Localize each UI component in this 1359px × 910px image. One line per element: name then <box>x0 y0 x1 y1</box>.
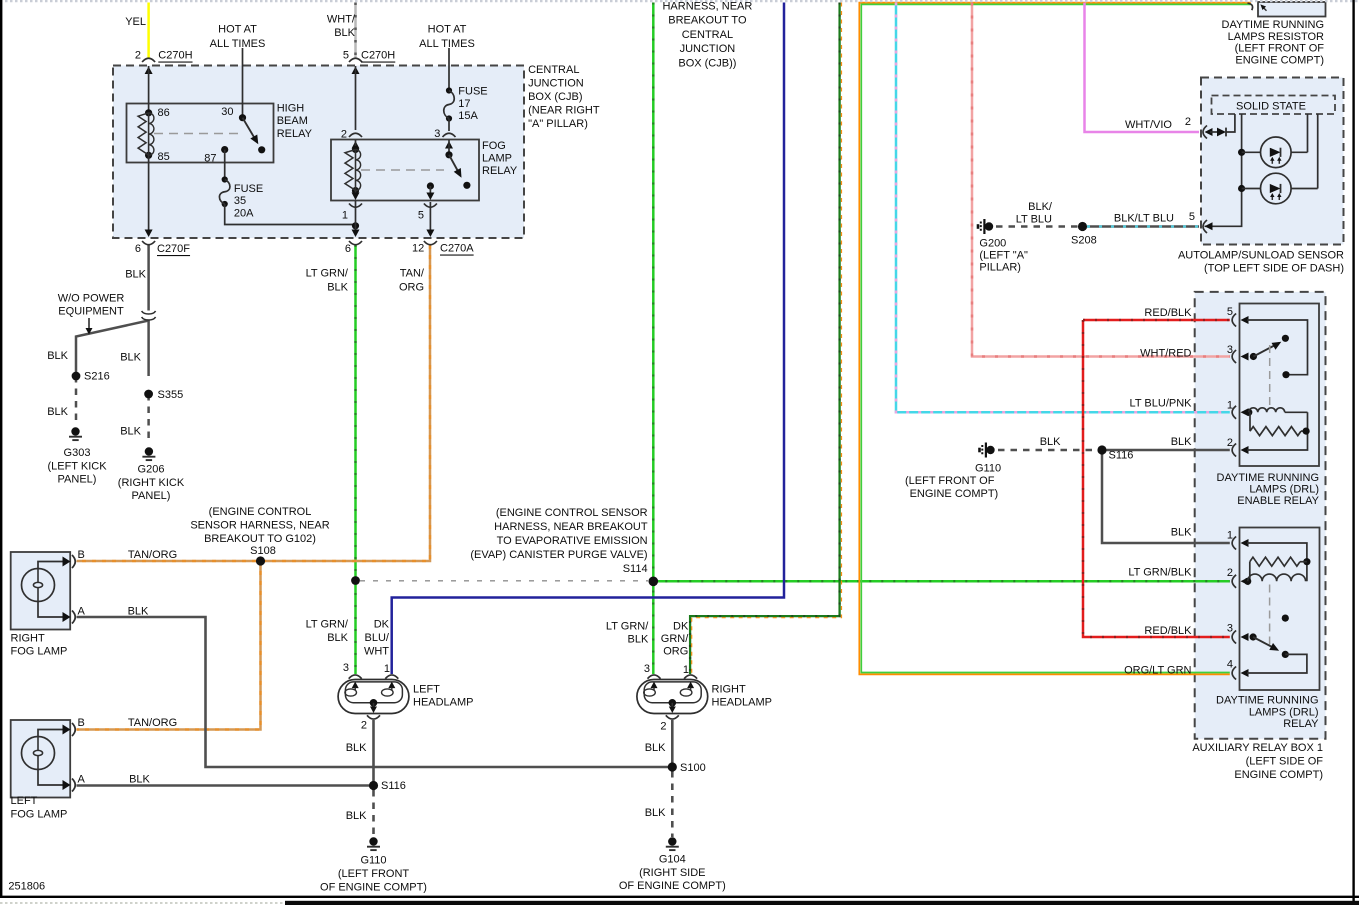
svg-text:RIGHT: RIGHT <box>712 684 747 696</box>
svg-text:S208: S208 <box>1071 235 1097 247</box>
svg-text:RELAY: RELAY <box>482 165 518 177</box>
svg-text:HARNESS, NEAR BREAKOUT: HARNESS, NEAR BREAKOUT <box>494 521 648 533</box>
svg-text:BEAM: BEAM <box>277 115 308 127</box>
svg-text:LAMPS (DRL): LAMPS (DRL) <box>1249 706 1319 718</box>
svg-text:(LEFT "A": (LEFT "A" <box>979 250 1028 262</box>
svg-text:(RIGHT KICK: (RIGHT KICK <box>118 477 185 489</box>
svg-text:ALL TIMES: ALL TIMES <box>210 38 266 50</box>
svg-text:G110: G110 <box>975 463 1001 475</box>
svg-text:1: 1 <box>342 210 348 222</box>
svg-text:5: 5 <box>418 209 424 221</box>
svg-text:JUNCTION: JUNCTION <box>680 43 736 55</box>
svg-text:G206: G206 <box>138 464 165 476</box>
svg-text:ENGINE COMPT): ENGINE COMPT) <box>1234 769 1323 781</box>
svg-text:251806: 251806 <box>8 881 45 893</box>
svg-text:RED/BLK: RED/BLK <box>1144 625 1192 637</box>
svg-text:15A: 15A <box>458 110 478 122</box>
svg-text:C270H: C270H <box>361 50 395 62</box>
svg-text:1: 1 <box>384 663 390 675</box>
svg-text:HIGH: HIGH <box>277 103 305 115</box>
svg-text:TAN/: TAN/ <box>400 268 425 280</box>
svg-text:JUNCTION: JUNCTION <box>528 77 584 89</box>
svg-text:S116: S116 <box>1109 450 1134 462</box>
svg-text:ENABLE RELAY: ENABLE RELAY <box>1237 495 1319 507</box>
svg-text:3: 3 <box>1227 622 1233 634</box>
svg-text:FOG: FOG <box>482 140 506 152</box>
svg-text:ALL TIMES: ALL TIMES <box>419 38 475 50</box>
svg-text:BLK: BLK <box>129 774 150 786</box>
svg-text:PANEL): PANEL) <box>132 490 171 502</box>
svg-text:(EVAP) CANISTER PURGE VALVE): (EVAP) CANISTER PURGE VALVE) <box>470 549 647 561</box>
svg-text:AUTOLAMP/SUNLOAD SENSOR: AUTOLAMP/SUNLOAD SENSOR <box>1178 250 1344 262</box>
svg-text:OF ENGINE COMPT): OF ENGINE COMPT) <box>320 881 427 893</box>
svg-text:G303: G303 <box>64 447 91 459</box>
svg-text:12: 12 <box>412 243 424 255</box>
svg-text:HOT AT: HOT AT <box>218 24 257 36</box>
svg-text:GRN/: GRN/ <box>661 633 689 645</box>
svg-text:CENTRAL: CENTRAL <box>528 64 579 76</box>
svg-text:5: 5 <box>1189 211 1195 223</box>
svg-text:SENSOR HARNESS, NEAR: SENSOR HARNESS, NEAR <box>190 519 329 531</box>
svg-text:RED/BLK: RED/BLK <box>1144 307 1192 319</box>
svg-text:3: 3 <box>343 662 349 674</box>
svg-text:BLK: BLK <box>645 742 666 754</box>
svg-text:2: 2 <box>1185 116 1191 128</box>
svg-text:20A: 20A <box>234 208 254 220</box>
svg-text:HARNESS, NEAR: HARNESS, NEAR <box>662 1 752 13</box>
svg-text:DK: DK <box>374 619 390 631</box>
svg-text:HEADLAMP: HEADLAMP <box>712 697 773 709</box>
svg-text:3: 3 <box>1227 344 1233 356</box>
svg-text:LT GRN/: LT GRN/ <box>606 621 649 633</box>
svg-text:5: 5 <box>1227 306 1233 318</box>
svg-text:LAMPS RESISTOR: LAMPS RESISTOR <box>1228 31 1324 43</box>
svg-text:DAYTIME RUNNING: DAYTIME RUNNING <box>1216 695 1318 707</box>
svg-text:LT GRN/: LT GRN/ <box>306 268 349 280</box>
svg-text:FOG LAMP: FOG LAMP <box>11 808 68 820</box>
svg-text:(LEFT SIDE OF: (LEFT SIDE OF <box>1246 756 1324 768</box>
svg-text:BLK: BLK <box>1171 527 1192 539</box>
svg-text:BLK: BLK <box>47 406 68 418</box>
svg-text:BOX (CJB): BOX (CJB) <box>528 91 582 103</box>
svg-text:S114: S114 <box>623 563 648 575</box>
svg-text:2: 2 <box>341 129 347 141</box>
svg-text:1: 1 <box>1227 400 1233 412</box>
svg-text:PANEL): PANEL) <box>58 474 97 486</box>
svg-text:DAYTIME RUNNING: DAYTIME RUNNING <box>1217 472 1319 484</box>
svg-text:BLK: BLK <box>1171 436 1192 448</box>
svg-text:WHT: WHT <box>364 646 389 658</box>
svg-text:S355: S355 <box>158 389 184 401</box>
svg-text:C270H: C270H <box>158 50 192 62</box>
svg-text:"A" PILLAR): "A" PILLAR) <box>528 118 588 130</box>
svg-text:BLK: BLK <box>1040 436 1061 448</box>
svg-text:FOG LAMP: FOG LAMP <box>11 646 68 658</box>
svg-text:HOT AT: HOT AT <box>428 24 467 36</box>
svg-text:B: B <box>78 549 85 561</box>
svg-text:C270A: C270A <box>440 243 474 255</box>
svg-text:BLK/: BLK/ <box>1028 201 1053 213</box>
svg-text:2: 2 <box>660 720 666 732</box>
svg-text:1: 1 <box>683 664 689 676</box>
svg-text:EQUIPMENT: EQUIPMENT <box>58 306 124 318</box>
svg-text:BLK: BLK <box>125 269 146 281</box>
svg-text:OF ENGINE COMPT): OF ENGINE COMPT) <box>619 880 726 892</box>
svg-text:(LEFT FRONT OF: (LEFT FRONT OF <box>905 475 995 487</box>
svg-text:C270F: C270F <box>157 243 190 255</box>
svg-text:SOLID STATE: SOLID STATE <box>1236 101 1306 113</box>
svg-text:86: 86 <box>158 107 170 119</box>
svg-text:ENGINE COMPT): ENGINE COMPT) <box>910 488 999 500</box>
svg-text:LEFT: LEFT <box>11 795 38 807</box>
svg-text:BLK: BLK <box>128 606 149 618</box>
svg-text:3: 3 <box>644 663 650 675</box>
svg-text:G200: G200 <box>979 238 1006 250</box>
svg-text:17: 17 <box>458 98 470 110</box>
svg-text:RELAY: RELAY <box>1283 718 1319 730</box>
svg-text:ENGINE COMPT): ENGINE COMPT) <box>1235 54 1324 66</box>
svg-text:2: 2 <box>135 50 141 62</box>
svg-text:YEL: YEL <box>125 16 146 28</box>
svg-text:WHT/: WHT/ <box>327 13 356 25</box>
svg-text:ORG/LT GRN: ORG/LT GRN <box>1124 665 1191 677</box>
svg-text:35: 35 <box>234 195 246 207</box>
svg-text:BOX (CJB)): BOX (CJB)) <box>678 57 736 69</box>
svg-text:(LEFT KICK: (LEFT KICK <box>47 460 107 472</box>
svg-text:BLK: BLK <box>346 742 367 754</box>
svg-text:TO EVAPORATIVE EMISSION: TO EVAPORATIVE EMISSION <box>497 535 648 547</box>
svg-text:BREAKOUT TO: BREAKOUT TO <box>668 15 747 27</box>
svg-text:TAN/ORG: TAN/ORG <box>128 717 177 729</box>
svg-text:LAMP: LAMP <box>482 153 512 165</box>
svg-text:FUSE: FUSE <box>458 86 487 98</box>
svg-text:BLK: BLK <box>334 27 355 39</box>
svg-text:S216: S216 <box>84 371 110 383</box>
svg-text:(ENGINE CONTROL SENSOR: (ENGINE CONTROL SENSOR <box>496 507 648 519</box>
svg-text:2: 2 <box>361 720 367 732</box>
svg-text:PILLAR): PILLAR) <box>979 262 1021 274</box>
svg-text:6: 6 <box>135 243 141 255</box>
svg-text:(TOP LEFT SIDE OF DASH): (TOP LEFT SIDE OF DASH) <box>1204 263 1344 275</box>
svg-text:LAMPS (DRL): LAMPS (DRL) <box>1249 484 1319 496</box>
svg-text:(LEFT FRONT: (LEFT FRONT <box>338 868 410 880</box>
svg-text:87: 87 <box>204 153 216 165</box>
svg-text:ORG: ORG <box>663 646 688 658</box>
svg-text:CENTRAL: CENTRAL <box>682 29 733 41</box>
svg-text:30: 30 <box>221 106 233 118</box>
svg-text:S108: S108 <box>250 545 276 557</box>
svg-text:LT BLU: LT BLU <box>1016 214 1052 226</box>
svg-text:AUXILIARY RELAY BOX 1: AUXILIARY RELAY BOX 1 <box>1192 742 1323 754</box>
svg-text:BLK: BLK <box>327 281 348 293</box>
svg-text:2: 2 <box>1227 437 1233 449</box>
svg-text:BLK: BLK <box>47 350 68 362</box>
svg-text:WHT/VIO: WHT/VIO <box>1125 119 1172 131</box>
svg-text:(ENGINE CONTROL: (ENGINE CONTROL <box>209 506 312 518</box>
svg-text:1: 1 <box>1227 529 1233 541</box>
svg-text:LT GRN/BLK: LT GRN/BLK <box>1128 567 1192 579</box>
svg-text:B: B <box>78 717 85 729</box>
svg-text:HEADLAMP: HEADLAMP <box>413 697 474 709</box>
svg-text:G110: G110 <box>360 855 386 867</box>
svg-text:BLU/: BLU/ <box>365 632 390 644</box>
svg-text:5: 5 <box>343 50 349 62</box>
svg-text:FUSE: FUSE <box>234 183 263 195</box>
svg-text:BLK: BLK <box>346 810 367 822</box>
svg-text:RIGHT: RIGHT <box>11 632 46 644</box>
svg-text:6: 6 <box>345 243 351 255</box>
svg-text:BLK: BLK <box>628 634 649 646</box>
svg-text:(NEAR RIGHT: (NEAR RIGHT <box>528 104 600 116</box>
svg-text:A: A <box>78 606 86 618</box>
svg-text:DK: DK <box>673 621 689 633</box>
svg-text:S116: S116 <box>381 780 406 792</box>
svg-text:4: 4 <box>1227 659 1233 671</box>
svg-text:(RIGHT SIDE: (RIGHT SIDE <box>639 867 705 879</box>
svg-text:W/O POWER: W/O POWER <box>58 292 125 304</box>
svg-text:G104: G104 <box>659 854 686 866</box>
svg-text:A: A <box>78 774 86 786</box>
svg-text:DAYTIME RUNNING: DAYTIME RUNNING <box>1222 19 1324 31</box>
svg-text:(LEFT FRONT OF: (LEFT FRONT OF <box>1235 43 1325 55</box>
svg-text:BLK: BLK <box>327 632 348 644</box>
svg-text:LT GRN/: LT GRN/ <box>306 619 349 631</box>
svg-text:WHT/RED: WHT/RED <box>1140 348 1191 360</box>
svg-text:BLK: BLK <box>120 425 141 437</box>
svg-text:BLK: BLK <box>645 807 666 819</box>
svg-text:S100: S100 <box>680 762 706 774</box>
svg-text:2: 2 <box>1227 567 1233 579</box>
svg-text:LEFT: LEFT <box>413 684 440 696</box>
svg-text:ORG: ORG <box>399 281 424 293</box>
svg-text:RELAY: RELAY <box>277 128 313 140</box>
svg-text:BLK/LT BLU: BLK/LT BLU <box>1114 213 1174 225</box>
svg-text:BLK: BLK <box>120 352 141 364</box>
svg-text:3: 3 <box>434 128 440 140</box>
svg-text:TAN/ORG: TAN/ORG <box>128 549 177 561</box>
svg-text:BREAKOUT TO G102): BREAKOUT TO G102) <box>204 533 316 545</box>
svg-text:85: 85 <box>158 151 170 163</box>
svg-text:LT BLU/PNK: LT BLU/PNK <box>1130 398 1193 410</box>
